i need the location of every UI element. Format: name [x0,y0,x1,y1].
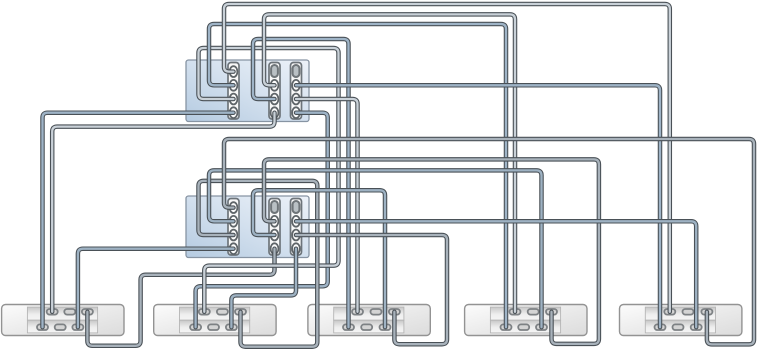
shelf S1 SAS port bottom-1 [37,324,48,330]
controller 1 HBA card C port 3 [292,94,300,105]
controller 1 HBA card C empty port 1 slot [293,65,300,77]
wire: SAS cable A4' controller2 to shelf1 SAS port bottom-3 [78,249,234,328]
wire: SAS cable A1' controller2 to shelf5 SAS port top-3 [224,139,754,344]
shelf S2 SAS port bottom-3 [226,324,237,330]
shelf S3 SAS port top-1 [352,309,363,315]
shelf S1 SAS port top-2 [64,309,75,315]
controller 1 HBA card B [269,63,280,120]
shelf S3 SAS port bottom-3 [380,324,391,330]
shelf S4 SAS port bottom-1 [501,324,512,330]
wire: SAS cable C1' controller2 to shelf5 SAS port bottom-3 [296,221,696,327]
controller 2 HBA card A [228,199,239,256]
controller 1 HBA card C port 4 [292,107,300,118]
disk shelf S3 chassis [308,305,430,336]
shelf S5 SAS port bottom-2 [673,324,684,330]
shelf S4 SAS port bottom-2 [518,324,529,330]
shelf S4 SAS port top-1 [510,309,521,315]
controller 1 HBA card A port 4 [230,107,238,118]
shelf S1 SAS port top-1 [47,309,58,315]
controller 2 HBA card C [291,199,302,256]
shelf S5 SAS port top-3 [701,309,712,315]
shelf S4 SAS port top-2 [528,309,539,315]
disk shelf S5 chassis [620,305,742,336]
shelf S5 SAS port top-1 [664,309,675,315]
wire: SAS cable A3 controller1 to shelf2 SAS port top-1 [199,48,339,312]
wire: SAS cable A4 controller1 to shelf1 SAS port bottom-1 [43,113,234,328]
wire: SAS cable C3' controller2 to shelf2 SAS port bottom-3 [231,249,296,328]
wire: SAS cable B3 controller1 to shelf1 SAS port top-1 [52,113,274,312]
wire: SAS cable B1' controller2 to shelf4 SAS port top-3 [264,159,599,344]
shelf S2 SAS port top-2 [217,309,228,315]
shelf S3 SAS port top-2 [371,309,382,315]
controller 1 HBA card B port 4 [271,107,279,118]
shelf S3 SAS port bottom-1 [343,324,354,330]
shelf S2 SAS port top-3 [235,309,246,315]
wire: SAS cable A2 controller1 to shelf4 SAS port bottom-1 [209,24,506,327]
controller 2 HBA card A port 4 [230,243,238,254]
controller 2 HBA card B port 4 [271,243,279,254]
controller 1 HBA card B port 3 [271,94,279,105]
shelf S5 SAS port top-2 [683,309,694,315]
shelf S2 SAS port bottom-2 [208,324,219,330]
controller 1 HBA card B empty port 1 slot [271,65,278,77]
wire: SAS cable C2' controller2 to shelf3 SAS port top-3 [296,235,447,344]
controller 1 HBA card A [228,63,239,120]
shelf S5 SAS port bottom-1 [655,324,666,330]
controller 1 HBA card B port 2 [271,80,279,91]
controller 2 HBA card C empty port 1 slot [293,201,300,213]
controller 2 HBA card A port 3 [230,230,238,241]
shelf S2 SAS port bottom-1 [190,324,201,330]
shelf S3 SAS port bottom-2 [361,324,372,330]
controller 2 HBA card C port 2 [292,216,300,227]
shelf S1 SAS port top-3 [82,309,93,315]
controller 1 HBA card C [291,63,302,120]
controller 2 HBA card B port 2 [271,216,279,227]
controller 2 HBA card C port 3 [292,230,300,241]
wire: SAS cable A3' controller2 to shelf2 SAS port top-3 [199,181,318,347]
shelf S2 SAS port top-1 [199,309,210,315]
shelf S4 SAS port top-3 [546,309,557,315]
disk shelf S2 chassis [154,305,276,336]
wire: SAS cable C2 controller1 to shelf3 SAS port top-1 [296,99,358,312]
controller 1 HBA card A port 3 [230,94,238,105]
controller 1 HBA card C port 2 [292,80,300,91]
wire: SAS cable B2 controller1 to shelf3 SAS port bottom-1 [253,39,349,327]
disk shelf S1 chassis [2,305,124,336]
wire: SAS cable B1 controller1 to shelf4 SAS port top-1 [264,14,515,311]
wire: SAS cable B3' controller2 to shelf1 SAS port top-3 [87,249,274,346]
controller 2 HBA card A port 1 [230,202,238,213]
shelf S5 SAS port bottom-3 [691,324,702,330]
wire: SAS cable B2' controller2 to shelf3 SAS port bottom-3 [253,190,385,327]
controller 1 chassis [186,60,309,122]
wire: SAS cable A2' controller2 to shelf4 SAS port bottom-3 [209,170,542,327]
shelf S3 SAS port top-3 [389,309,400,315]
shelf S1 SAS port bottom-2 [55,324,66,330]
controller 2 HBA card B port 3 [271,230,279,241]
disk shelf S4 chassis [465,305,587,336]
controller 1 HBA card A port 1 [230,66,238,77]
controller 2 HBA card B [269,199,280,256]
wire: SAS cable A1 controller1 to shelf5 SAS port top-1 [224,4,670,312]
wire: SAS cable C3 controller1 to shelf2 SAS port bottom-1 [196,113,328,328]
controller 2 HBA card A port 2 [230,216,238,227]
controller 2 HBA card B empty port 1 slot [271,201,278,213]
controller 1 HBA card A port 2 [230,80,238,91]
controller 2 chassis [186,196,309,258]
shelf S4 SAS port bottom-3 [536,324,547,330]
shelf S1 SAS port bottom-3 [72,324,83,330]
controller 2 HBA card C port 4 [292,243,300,254]
wire: SAS cable C1 controller1 to shelf5 SAS port bottom-1 [296,85,660,327]
